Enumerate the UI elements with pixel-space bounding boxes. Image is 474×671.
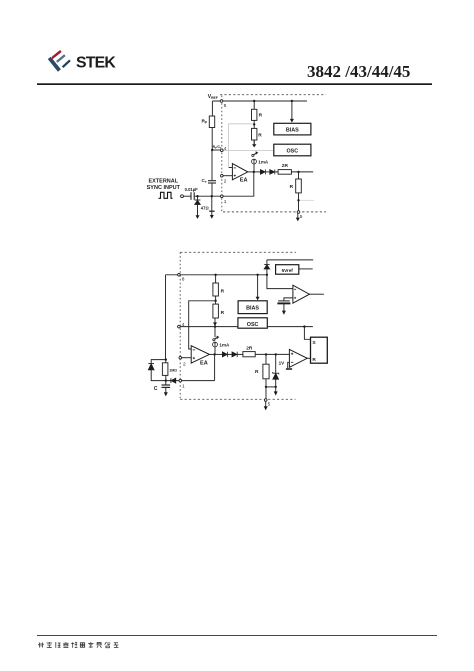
resistor 2R [278, 170, 291, 175]
resistor R3 [263, 364, 269, 379]
logo STEK mark [48, 50, 71, 72]
wire Rp branch [211, 101, 213, 116]
svg-text:2R: 2R [246, 345, 253, 351]
resistor R output [296, 179, 302, 193]
diode D5 compensation [148, 364, 154, 370]
ground arrow sync diode [196, 215, 200, 219]
R2 ground arrow [213, 322, 217, 326]
OSC box [274, 144, 311, 156]
discharge symbol 2 [213, 337, 218, 341]
diode D1 [260, 169, 265, 174]
svg-text:EA: EA [200, 361, 208, 367]
wire C top [165, 381, 167, 385]
wire 1M top [151, 360, 165, 364]
wire bottom tie [266, 386, 276, 388]
svg-text:1MΩ: 1MΩ [169, 368, 177, 372]
dashed IC boundary 2 left [179, 252, 181, 399]
svg-text:BIAS: BIAS [246, 306, 259, 312]
svg-text:R: R [259, 113, 263, 119]
latch box [311, 337, 328, 363]
EA2 plus [193, 357, 195, 359]
svg-text:OSC: OSC [286, 148, 298, 154]
5vref diode [264, 265, 269, 269]
ref bar comp [286, 368, 292, 370]
wire bias arrow 2 [257, 275, 259, 297]
svg-text:1mA: 1mA [258, 160, 269, 165]
feedback wire EA [223, 172, 254, 196]
svg-text:1mA: 1mA [219, 343, 230, 348]
wire d6 to pin1 [176, 380, 179, 382]
wire diode to 2R [275, 171, 278, 173]
wire pin4 rail 2 right [267, 326, 313, 328]
bias arrow 2 [256, 297, 260, 301]
wire 1M resistor top [165, 360, 167, 363]
wire cs2 to EA out [214, 347, 216, 355]
opamp1 plus [294, 297, 296, 299]
svg-text:R: R [258, 133, 262, 139]
wire bias branch [291, 101, 293, 119]
footer rule [37, 634, 437, 637]
wire current source to node [253, 164, 255, 172]
wire 5vref box out [299, 268, 313, 270]
wire zener bottom [275, 379, 277, 392]
pin circles bottom schematic [178, 274, 267, 402]
wire current source 2 top [214, 327, 216, 338]
wire opamp1 out [309, 293, 324, 295]
comp2 minus [291, 361, 293, 363]
logo middle arm [56, 54, 66, 62]
sync clamp diode [195, 200, 201, 204]
battery ref plates [277, 301, 290, 304]
ground arrow zener [274, 391, 278, 395]
wire R3 bottom [265, 379, 267, 400]
svg-text:VREF: VREF [208, 94, 218, 100]
wire opamp1 minus to battery [284, 298, 293, 301]
svg-text:R: R [255, 369, 259, 375]
wire zener top [275, 354, 277, 372]
wire EA out [248, 171, 261, 173]
svg-text:EA: EA [240, 178, 248, 184]
diode D3 [222, 352, 227, 357]
footer company text (simulated tiny CJK glyphs) [38, 642, 118, 648]
wire left outer drop [165, 275, 167, 360]
wire R3 top [265, 354, 267, 364]
wire sync input [183, 195, 190, 197]
svg-text:SYNC INPUT: SYNC INPUT [147, 185, 181, 191]
OSC box 2 [238, 318, 267, 328]
wire 5vref diode top [266, 260, 268, 265]
svg-text:1: 1 [224, 199, 227, 205]
EA op-amp triangle [232, 164, 247, 180]
wire R to pin5 [298, 193, 300, 211]
svg-text:RT/CT: RT/CT [213, 145, 222, 150]
svg-text:5Vref: 5Vref [282, 268, 294, 273]
wire R1 R2 [215, 296, 217, 304]
faint stub right [300, 199, 314, 201]
wire divider tap faint [229, 124, 254, 168]
wire R to R [253, 120, 255, 128]
wire R to ground [253, 140, 255, 144]
svg-text:CT: CT [202, 178, 207, 184]
resistor 1M [162, 363, 168, 376]
EA2 triangle [191, 346, 209, 363]
svg-text:2: 2 [224, 179, 227, 185]
comp2 plus [291, 353, 293, 355]
wire pin4 rail 2 left [180, 326, 238, 328]
EA minus sign [234, 167, 236, 169]
wire comp out to latch [307, 357, 310, 359]
EA plus sign [234, 175, 236, 177]
wire rt/ct to osc faint [223, 150, 274, 152]
wire diode branch down [197, 196, 199, 199]
dashed IC boundary left [221, 96, 223, 212]
sync waveform glyph [159, 192, 173, 198]
svg-text:0.01µF: 0.01µF [185, 187, 199, 192]
wire pin5 arrow 2 [265, 401, 267, 406]
wire C to arrow [165, 388, 167, 393]
bias arrow [290, 119, 294, 123]
wire pin5 arrow shaft [297, 213, 299, 218]
pin5 arrow [296, 218, 300, 222]
wire pin2 to EA2 [182, 357, 192, 359]
svg-text:BIAS: BIAS [286, 128, 299, 134]
ground arrow R2 bottom [264, 406, 268, 410]
ground arrow CT plate [210, 211, 214, 219]
resistor R2 [213, 304, 219, 318]
wire sync node to plate [211, 196, 213, 211]
svg-text:8: 8 [224, 103, 227, 109]
capacitor C plates [162, 385, 171, 387]
opamp1 triangle [293, 285, 310, 303]
wire feedback 2 [214, 354, 216, 380]
svg-text:R: R [312, 357, 316, 363]
resistor R1 [213, 283, 219, 296]
diode D2 [270, 169, 275, 174]
junction dots bottom schematic [165, 274, 306, 389]
dashed IC boundary 2 bottom [180, 398, 295, 400]
wire R2 arrow shaft [214, 318, 216, 323]
wire diode to ground arrow [197, 204, 199, 215]
svg-text:OSC: OSC [247, 322, 259, 328]
wire comp minus ref [288, 362, 290, 368]
current source 1mA [252, 159, 257, 164]
svg-text:RP: RP [202, 119, 208, 125]
svg-text:STEK: STEK [76, 55, 116, 72]
dashed IC boundary bottom [223, 211, 326, 213]
dashed IC boundary 2 top [180, 251, 296, 253]
svg-text:4: 4 [224, 146, 227, 152]
svg-text:3842 /43/44/45: 3842 /43/44/45 [307, 62, 410, 81]
opamp1 minus [294, 288, 296, 290]
svg-text:2R: 2R [282, 163, 289, 169]
wire node4 to CT [211, 150, 213, 180]
svg-text:5: 5 [268, 401, 271, 407]
resistor Rp [209, 116, 214, 128]
svg-text:1V: 1V [279, 360, 286, 365]
wire EA top input [229, 167, 233, 169]
svg-text:8: 8 [182, 277, 185, 283]
svg-text:R: R [221, 288, 225, 294]
svg-text:1: 1 [182, 384, 185, 390]
capacitor 0.01uF plates [191, 192, 194, 200]
wire 2R2 to comp [255, 353, 289, 355]
wire 2R out [291, 171, 313, 173]
ground arrow battery [282, 311, 286, 315]
header rule [37, 83, 432, 85]
svg-text:5: 5 [300, 214, 303, 220]
wire pin1 inside [182, 380, 215, 382]
EA2 minus [193, 349, 195, 351]
wire EA2 out [209, 353, 222, 355]
zener diode [272, 372, 279, 379]
plate bottom bar [209, 210, 214, 212]
wire latch S input [304, 327, 310, 340]
current source 1mA 2 [213, 342, 218, 347]
capacitor CT plates [208, 181, 216, 183]
logo red arm [52, 50, 62, 59]
svg-text:47Ω: 47Ω [201, 206, 209, 211]
BIAS box 2 [238, 301, 267, 314]
svg-text:C: C [154, 386, 158, 392]
comparator2 triangle [289, 349, 307, 367]
diode D6 to pin1 [171, 378, 176, 383]
wire 1M bottom [165, 375, 167, 380]
wire d3 d4 [228, 353, 232, 355]
svg-text:EXTERNAL: EXTERNAL [148, 179, 178, 185]
resistor R divider top [252, 109, 257, 120]
svg-text:R: R [221, 310, 225, 316]
ground arrow C [164, 392, 168, 396]
pin circles top schematic [181, 100, 300, 214]
svg-text:4: 4 [182, 322, 185, 328]
diode D4 [232, 352, 237, 357]
svg-text:2: 2 [183, 361, 186, 367]
wire CT to sync node [211, 183, 213, 196]
junction dots top schematic [196, 100, 299, 202]
dashed IC boundary top [220, 94, 326, 96]
wire battery to arrow [283, 304, 285, 311]
wire coupling cap to pin1 [194, 195, 220, 197]
wire pin8 rail 2 [166, 274, 267, 276]
logo bottom arm [62, 59, 71, 68]
5Vref box [276, 265, 299, 275]
wire opamp1 plus input [267, 275, 293, 289]
wire node4 to pin4 [212, 149, 220, 151]
logo spine stroke [48, 57, 61, 72]
wire between diodes [266, 171, 270, 173]
wire Rp to node4 [211, 128, 213, 151]
svg-text:R: R [290, 184, 294, 190]
BIAS box [274, 123, 311, 135]
wire divider tap 2 [189, 301, 216, 349]
wire d4 to 2R2 [237, 353, 243, 355]
ground symbol divider [252, 140, 256, 147]
wire diode5 bottom [151, 370, 171, 381]
wire rail to 5vref diode [266, 269, 268, 275]
wire pin2 to EA [223, 175, 232, 177]
discharge symbol [252, 153, 257, 157]
wire R1 top [215, 275, 217, 283]
wire node to R [298, 172, 300, 179]
resistor R divider bottom [252, 128, 257, 140]
wire rail to R [253, 101, 255, 109]
resistor 2R2 [243, 352, 255, 357]
wire 5vref top rail [267, 259, 313, 261]
wire Vref rail [212, 100, 307, 102]
